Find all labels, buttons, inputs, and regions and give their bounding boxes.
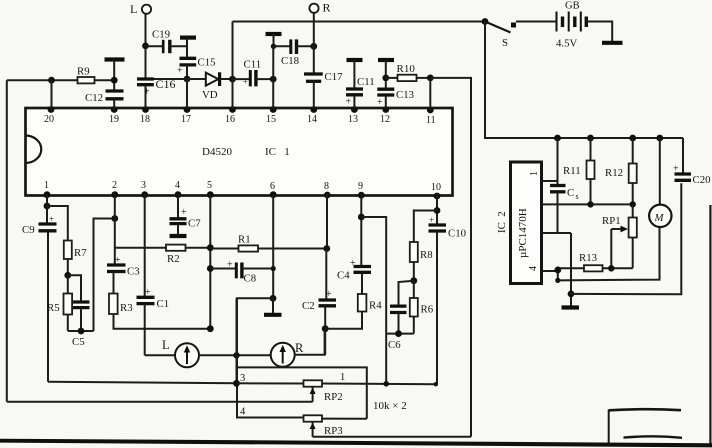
border bottom — [0, 439, 712, 448]
svg-text:C13: C13 — [396, 89, 414, 101]
wire ground line to C20 — [571, 183, 681, 294]
wire C16 to C15 node — [154, 78, 188, 80]
svg-text:17: 17 — [181, 114, 191, 125]
resistor R11 — [563, 138, 595, 204]
svg-text:16: 16 — [225, 114, 235, 125]
wire Cs bottom to IC2 — [542, 232, 572, 234]
svg-text:+: + — [429, 215, 434, 225]
capacitor C19 — [146, 29, 188, 54]
node C12/R9 junction — [111, 77, 118, 84]
node C6 bottom junction — [395, 330, 402, 337]
svg-text:R1: R1 — [238, 234, 251, 246]
capacitor C10 — [429, 215, 467, 384]
svg-text:13: 13 — [348, 114, 358, 125]
capacitor C9 — [22, 214, 57, 382]
svg-text:C19: C19 — [152, 29, 170, 41]
terminal bar above C15 — [180, 38, 196, 58]
wire pin6 node to meter mid riser — [237, 298, 304, 417]
svg-text:C16: C16 — [156, 77, 176, 91]
svg-text:C5: C5 — [72, 336, 85, 348]
svg-text:+: + — [326, 289, 332, 300]
wire L riser to C16 top — [145, 14, 147, 79]
svg-text:R3: R3 — [120, 302, 133, 314]
resistor R2 — [115, 245, 211, 265]
svg-text:+: + — [49, 214, 54, 224]
svg-text:4.5V: 4.5V — [556, 38, 577, 50]
terminal L — [130, 2, 151, 16]
svg-text:+: + — [227, 260, 233, 271]
svg-text:M: M — [654, 212, 665, 224]
capacitor C16 — [137, 77, 176, 109]
svg-text:C18: C18 — [281, 55, 299, 67]
capacitor C4 — [337, 258, 371, 294]
svg-text:C4: C4 — [337, 270, 350, 282]
node rail R12 junction — [629, 135, 636, 142]
svg-text:1: 1 — [44, 180, 49, 191]
wire pin20 riser — [51, 80, 53, 109]
svg-text:4: 4 — [240, 407, 246, 418]
node pin5 bottom junction — [207, 325, 214, 332]
switch S — [482, 18, 516, 49]
svg-text:R7: R7 — [74, 247, 87, 259]
IC U1 top pin junction dots — [48, 106, 434, 113]
svg-text:C15: C15 — [198, 57, 216, 69]
svg-text:R: R — [295, 341, 304, 355]
svg-text:C9: C9 — [22, 224, 35, 236]
node RP1 wiper / R13 junction — [608, 265, 614, 271]
wire RP3 wiper to right drop — [313, 436, 471, 438]
IC U2 uPC1470H body — [496, 162, 542, 284]
wire node3 to RP2 — [237, 382, 304, 384]
svg-text:C1: C1 — [157, 298, 170, 310]
svg-text:R8: R8 — [420, 249, 433, 261]
node C18 left junction — [271, 44, 276, 49]
IC U1 pin numbers bottom row — [44, 180, 441, 193]
wire R meter return riser — [294, 329, 325, 355]
capacitor C15 — [177, 57, 216, 80]
svg-text:+: + — [377, 97, 383, 108]
wire pin9 branch to long riser — [361, 217, 386, 384]
svg-text:s: s — [576, 192, 579, 201]
svg-text:C11: C11 — [244, 59, 262, 71]
node pin6 ground junction — [270, 295, 277, 302]
wire C9 return to node3 — [48, 382, 237, 384]
resistor R8 — [410, 242, 433, 281]
ground pin6 — [264, 298, 282, 315]
wire pin11 riser — [429, 78, 431, 110]
node riser junction on RP2 wire — [383, 381, 389, 387]
battery GB 4.5V — [556, 1, 586, 50]
wire R10 node to far-right drop — [430, 78, 471, 437]
wire IC2 ground drop — [570, 233, 572, 306]
wire pin6 riser — [272, 194, 274, 298]
svg-text:L: L — [162, 338, 170, 352]
capacitor C8 — [210, 260, 273, 285]
node pin20 riser junction — [48, 77, 55, 84]
node R8 branch junction — [434, 207, 441, 214]
svg-text:VD: VD — [202, 89, 218, 101]
svg-text:R12: R12 — [605, 167, 623, 179]
wire left bus — [6, 80, 8, 402]
node meter mid junction — [233, 352, 239, 358]
node rail Cs junction — [554, 135, 561, 142]
svg-text:R11: R11 — [563, 165, 581, 177]
wire C6 R6 bottom tie to riser — [386, 333, 414, 335]
svg-text:3: 3 — [141, 180, 146, 191]
node pin1 junction — [44, 203, 51, 210]
wire R8 branch — [414, 211, 437, 243]
svg-text:GB: GB — [565, 1, 580, 12]
capacitor C12 — [85, 91, 124, 109]
svg-text:R4: R4 — [369, 300, 382, 312]
svg-text:12: 12 — [380, 114, 390, 125]
svg-text:10k × 2: 10k × 2 — [373, 400, 407, 412]
svg-text:5: 5 — [207, 180, 212, 191]
wire switch riser to IC2 rail — [485, 22, 683, 139]
svg-text:R9: R9 — [77, 66, 90, 78]
svg-text:14: 14 — [307, 114, 317, 125]
svg-text:1: 1 — [529, 171, 540, 176]
svg-text:+: + — [181, 207, 187, 218]
node C8 right junction — [271, 266, 276, 271]
terminal bar above C13 — [378, 60, 394, 89]
diode VD — [187, 72, 233, 101]
wire pin15 riser — [272, 46, 274, 109]
svg-text:4: 4 — [175, 180, 180, 191]
svg-text:+: + — [673, 164, 679, 175]
svg-text:C17: C17 — [325, 71, 344, 83]
svg-text:µPC1470H: µPC1470H — [517, 208, 529, 258]
svg-text:R10: R10 — [397, 63, 416, 75]
wire top supply rail to switch — [233, 21, 486, 23]
svg-text:C10: C10 — [448, 228, 466, 240]
svg-text:8: 8 — [324, 181, 329, 192]
capacitor C5 — [68, 275, 90, 348]
wire pin10 riser lands on RP2 wire — [434, 382, 438, 386]
wire RP2 wiper bus to left — [7, 401, 313, 403]
potentiometer RP3 — [304, 415, 367, 437]
resistor R4 — [325, 294, 382, 329]
wire battery to ground — [586, 22, 612, 42]
wire R terminal riser — [313, 13, 315, 74]
border right — [709, 205, 711, 444]
resistor R13 — [558, 252, 633, 271]
resistor R7 — [47, 206, 87, 275]
node R12 bottom junction — [630, 201, 636, 207]
svg-text:C8: C8 — [244, 273, 257, 285]
IC U1 D4520 body — [26, 108, 453, 196]
wire IC2 pin4 stub — [542, 270, 558, 272]
node pin9 branch junction — [358, 214, 365, 221]
capacitor C6 — [388, 281, 414, 351]
terminal bar above C18 branch — [266, 34, 282, 46]
svg-text:+: + — [346, 97, 352, 108]
svg-text:R5: R5 — [47, 302, 60, 314]
svg-text:+: + — [115, 255, 121, 266]
wire C20 riser from rail — [682, 138, 684, 174]
capacitor C13 — [377, 89, 414, 109]
svg-text:C12: C12 — [85, 92, 103, 104]
node R7 bottom junction — [64, 272, 71, 279]
svg-text:C3: C3 — [127, 266, 140, 278]
node R8 bottom junction — [410, 277, 417, 284]
svg-text:RP3: RP3 — [324, 425, 343, 437]
wire loop top — [237, 367, 367, 418]
artifact strokes bottom right — [609, 409, 682, 444]
ground battery — [602, 41, 623, 45]
svg-text:6: 6 — [270, 181, 275, 192]
wire Cs riser from rail — [557, 138, 559, 185]
node R2 right junction — [207, 244, 214, 251]
svg-text:R13: R13 — [579, 252, 597, 264]
resistor R3 — [109, 294, 210, 329]
node C8 left junction — [207, 265, 214, 272]
wire pin10 riser — [436, 194, 438, 225]
svg-text:IC 1: IC 1 — [265, 146, 290, 158]
wire pin17 riser — [186, 79, 188, 109]
wire pin3 riser to C1 — [144, 194, 146, 297]
wire between meters — [198, 354, 271, 356]
svg-text:C2: C2 — [302, 300, 315, 312]
svg-text:11: 11 — [426, 115, 436, 126]
node R11 bottom junction — [587, 201, 593, 207]
svg-text:IC 2: IC 2 — [496, 211, 508, 233]
terminal bar above C11b — [347, 60, 363, 89]
capacitor C3 — [107, 255, 140, 294]
capacitor C11 — [233, 59, 274, 87]
terminal R — [309, 1, 330, 15]
node R10 right junction — [427, 75, 434, 82]
svg-text:C11: C11 — [357, 76, 375, 88]
node C18 right / R riser junction — [310, 43, 317, 50]
node C19 left junction — [142, 43, 149, 50]
node ground / C20 return junction — [568, 291, 575, 298]
svg-text:19: 19 — [109, 114, 119, 125]
svg-text:C: C — [567, 187, 574, 199]
node R1 right junction — [323, 245, 330, 252]
node R10 left junction — [382, 75, 389, 82]
svg-text:R: R — [323, 1, 331, 15]
wire IC2 pin1 stub — [542, 180, 558, 182]
wire pin16 riser to top rail — [232, 22, 234, 110]
wire switch to battery — [516, 21, 557, 23]
capacitor C18 — [274, 39, 314, 67]
node C5 bottom junction — [78, 328, 85, 335]
svg-text:R2: R2 — [167, 253, 180, 265]
resistor R12 — [605, 138, 637, 204]
motor M — [558, 138, 672, 280]
capacitor C11b electrolytic at pin13 — [346, 76, 375, 109]
wire pin8 riser — [326, 194, 328, 249]
svg-text:+: + — [243, 78, 248, 87]
capacitor C1 — [137, 287, 170, 355]
svg-text:18: 18 — [140, 114, 150, 125]
resistor R10 — [386, 63, 431, 81]
resistor R6 — [410, 281, 434, 334]
node rail R11 junction — [587, 135, 594, 142]
wire R5 C5 bottom tie — [68, 330, 94, 332]
capacitor C17 — [304, 71, 343, 109]
IC U1 bottom pin junction dots — [44, 191, 441, 199]
svg-text:10: 10 — [431, 182, 441, 193]
svg-text:20: 20 — [44, 114, 54, 125]
node rail M junction — [656, 135, 663, 142]
resistor R9 — [7, 66, 114, 84]
meter L — [162, 338, 199, 367]
svg-text:15: 15 — [266, 114, 276, 125]
node C2 return junction — [322, 325, 329, 332]
capacitor C20 — [673, 164, 711, 187]
svg-text:9: 9 — [358, 181, 363, 192]
resistor R5 — [47, 275, 72, 331]
capacitor Cs — [550, 186, 579, 234]
svg-text:+: + — [350, 258, 356, 269]
wire pin9 riser to C4 — [360, 194, 362, 266]
meter R — [271, 341, 304, 367]
svg-text:C6: C6 — [388, 339, 401, 351]
wire meter mid riser — [236, 298, 238, 383]
node pin16/VD junction — [229, 76, 236, 83]
node C11/pin15 junction — [270, 76, 277, 83]
svg-text:D4520: D4520 — [202, 146, 232, 158]
potentiometer RP1 — [602, 204, 637, 268]
svg-text:2: 2 — [112, 180, 117, 191]
svg-text:+: + — [177, 66, 183, 77]
potentiometer RP2 — [304, 380, 436, 403]
svg-text:RP1: RP1 — [602, 215, 621, 227]
wire L meter feed — [145, 354, 176, 356]
node C15/pin17 junction — [184, 76, 191, 83]
svg-text:C20: C20 — [693, 174, 711, 186]
capacitor C7 — [170, 194, 202, 236]
terminal bar above C12 — [105, 60, 125, 91]
svg-text:4: 4 — [528, 266, 539, 271]
node pin4 junction — [554, 267, 561, 274]
ground IC2 — [562, 305, 580, 309]
svg-text:+: + — [145, 287, 151, 298]
wire IC2 output line — [542, 203, 633, 205]
node 3 junction — [233, 380, 240, 387]
wire R5C5 return riser to pin2 node — [94, 219, 115, 332]
svg-text:C7: C7 — [188, 218, 201, 230]
svg-text:L: L — [130, 2, 137, 16]
wire pin1 drop — [46, 194, 48, 224]
node pin2 junction — [111, 215, 118, 222]
svg-text:1: 1 — [340, 372, 345, 383]
svg-text:RP2: RP2 — [324, 391, 343, 403]
IC U1 pin numbers top row — [44, 114, 436, 126]
capacitor C2 — [302, 249, 336, 355]
svg-text:R6: R6 — [421, 304, 434, 316]
svg-text:S: S — [502, 37, 508, 49]
wire pin2 riser — [114, 194, 116, 265]
resistor R1 — [210, 234, 326, 252]
wire pin5 riser — [209, 194, 211, 329]
